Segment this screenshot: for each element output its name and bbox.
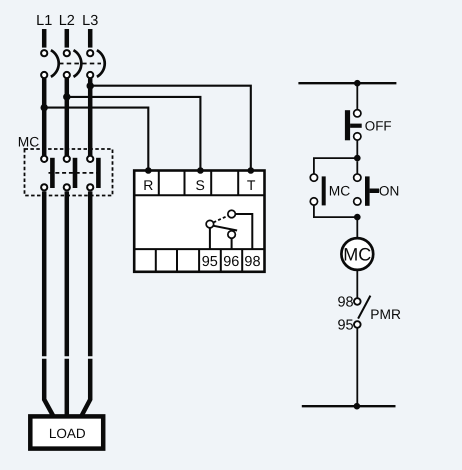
svg-text:S: S [196, 177, 205, 193]
svg-text:95: 95 [202, 254, 218, 270]
svg-text:L1: L1 [36, 13, 52, 29]
svg-text:MC: MC [18, 134, 39, 149]
svg-text:95: 95 [337, 318, 353, 334]
svg-text:MC: MC [329, 183, 350, 198]
svg-text:OFF: OFF [365, 118, 392, 133]
svg-text:ON: ON [379, 183, 399, 198]
svg-text:MC: MC [343, 245, 371, 265]
svg-text:L3: L3 [82, 13, 98, 29]
svg-text:96: 96 [223, 254, 239, 270]
svg-text:PMR: PMR [370, 307, 401, 322]
svg-text:98: 98 [244, 254, 260, 270]
svg-text:L2: L2 [59, 13, 75, 29]
svg-text:T: T [247, 177, 256, 193]
svg-text:LOAD: LOAD [49, 426, 86, 441]
svg-text:R: R [143, 177, 153, 193]
svg-text:98: 98 [337, 295, 353, 311]
